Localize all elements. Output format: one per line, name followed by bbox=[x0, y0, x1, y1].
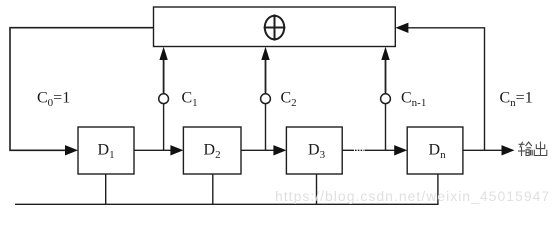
svg-text:C2: C2 bbox=[281, 90, 297, 110]
svg-text:C1: C1 bbox=[182, 90, 198, 110]
svg-text:Cn=1: Cn=1 bbox=[500, 90, 533, 110]
svg-text:D2: D2 bbox=[204, 142, 221, 162]
svg-text:Dn: Dn bbox=[429, 142, 447, 162]
svg-text:D3: D3 bbox=[308, 142, 326, 162]
svg-text:D1: D1 bbox=[98, 142, 115, 162]
svg-text:C0=1: C0=1 bbox=[37, 90, 70, 110]
svg-text:Cn-1: Cn-1 bbox=[401, 90, 426, 110]
svg-text:https://blog.csdn.net/weixin_4: https://blog.csdn.net/weixin_45015947 bbox=[275, 188, 550, 204]
